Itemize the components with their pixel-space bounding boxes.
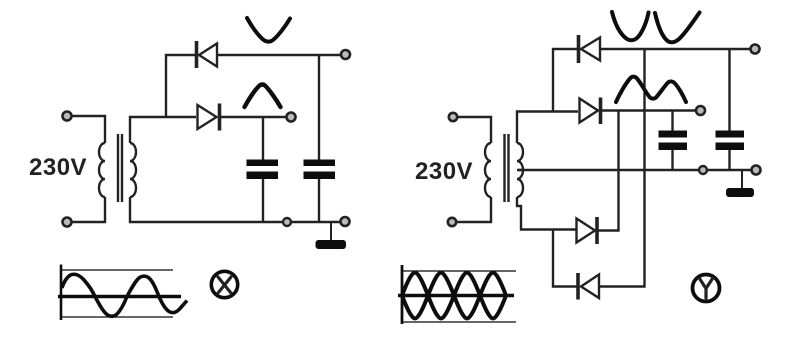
wire secondary top lead — [517, 112, 578, 144]
wire C3 top stem — [671, 111, 673, 132]
wire center tap stub — [517, 169, 523, 171]
transformer T2 primary winding — [485, 143, 491, 197]
diode D1 cathode bar — [577, 35, 581, 63]
diode D3 triangle — [577, 219, 596, 243]
wire down to D4 — [553, 230, 577, 287]
wire C4 top stem — [728, 49, 730, 132]
wire negative rail to terminal — [217, 54, 341, 56]
wire positive rail to terminal — [220, 116, 286, 118]
wire positive rail — [601, 109, 696, 111]
Y full-wave plot axes — [398, 265, 516, 324]
capacitor C4 plates — [716, 131, 745, 138]
transformer T1 core — [118, 134, 122, 202]
terminal output pos — [287, 113, 296, 122]
terminal right-bottom input — [448, 218, 456, 226]
Y sine wave 1 — [402, 273, 506, 319]
diode D1 triangle — [199, 44, 217, 67]
transformer T1 secondary winding — [130, 143, 136, 197]
wire primary top lead — [72, 116, 105, 143]
wire negative rail — [600, 48, 751, 50]
terminal pos out — [696, 106, 705, 115]
ground stem right — [741, 170, 743, 189]
wire D3 riser — [597, 111, 619, 231]
diode D4 cathode bar — [576, 273, 580, 300]
terminal neg out — [751, 45, 760, 54]
wire C1 top stem — [262, 117, 264, 160]
wire C2 top stem — [318, 55, 320, 160]
diode D1 cathode bar — [195, 41, 199, 68]
ground bar — [316, 240, 347, 249]
terminal bottom rail — [341, 217, 350, 226]
wire C2 bottom stem — [318, 179, 320, 222]
junction ring center tap — [699, 166, 707, 174]
wire primary bottom lead — [457, 197, 491, 222]
waveform hump above D2 — [245, 85, 281, 108]
wire C4 bottom stem — [728, 150, 730, 170]
diode D2 triangle — [580, 99, 599, 123]
diode D4 triangle — [581, 275, 599, 299]
svg-text:230V: 230V — [29, 154, 87, 181]
wire bottom rail — [130, 197, 341, 222]
terminal left-bottom input — [63, 218, 72, 227]
ground bar right — [726, 188, 754, 197]
transformer T2 core — [505, 134, 509, 202]
diode D3 cathode bar — [595, 217, 599, 244]
wire primary bottom lead — [72, 197, 105, 222]
Y sine wave 2 mirrored — [402, 273, 506, 319]
diode D1 triangle — [581, 38, 600, 61]
wire center tap rail — [518, 169, 752, 171]
transformer T1 primary winding — [99, 143, 105, 197]
wire node up to D1 — [553, 49, 577, 112]
terminal right-top input — [449, 113, 457, 121]
transformer T2 secondary winding — [517, 143, 523, 197]
diode D2 triangle — [198, 105, 217, 129]
wire C1 bottom stem — [262, 179, 264, 222]
waveform V above D1 — [247, 18, 290, 42]
capacitor C1 plates — [247, 160, 279, 167]
terminal output neg — [341, 50, 350, 59]
terminal center tap — [752, 166, 761, 175]
wire primary top lead — [457, 117, 491, 143]
capacitor C3 plates — [659, 131, 688, 138]
label X in circle — [211, 271, 237, 297]
terminal left-top input — [63, 112, 72, 121]
diode D2 cathode bar — [599, 98, 603, 125]
waveform MM above positive rail — [616, 77, 686, 102]
waveform VV above negative rail — [612, 12, 649, 40]
wire secondary top lead to node — [130, 117, 196, 143]
svg-text:230V: 230V — [415, 158, 473, 185]
wire node up to D1 — [166, 55, 195, 117]
X sine wave — [62, 274, 187, 316]
X sine plot axes — [58, 265, 187, 321]
label Y in circle — [693, 275, 720, 302]
ground stem — [330, 222, 332, 241]
diode D2 cathode bar — [218, 104, 222, 131]
junction ring bottom rail — [283, 218, 291, 226]
wire C3 bottom stem — [671, 150, 673, 170]
wire secondary bottom lead — [517, 197, 576, 230]
capacitor C2 plates — [304, 160, 336, 167]
wire D4 riser to negative rail — [599, 49, 645, 287]
